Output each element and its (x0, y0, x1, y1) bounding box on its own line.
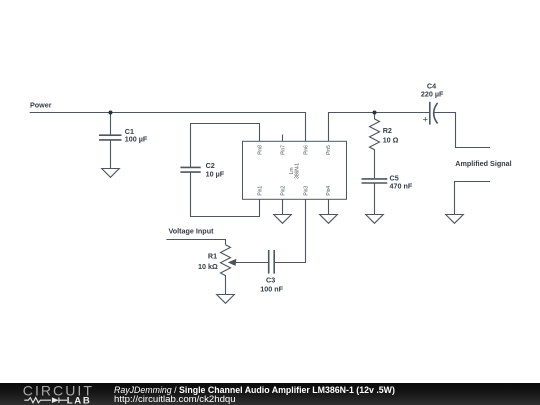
wire output lower stub to ground (455, 182, 491, 215)
svg-text:10 Ω: 10 Ω (383, 136, 399, 145)
R1 wiper wire to C3 (234, 262, 268, 264)
capacitor C4 polarized (430, 102, 438, 125)
wire C2 top to Pin8 (191, 124, 260, 168)
resistor R2 (370, 113, 380, 179)
wire C4 to output stub (434, 113, 490, 148)
ground below Pin4 (320, 215, 338, 224)
ground below Pin2 (274, 215, 292, 224)
svg-text:100 µF: 100 µF (125, 135, 148, 144)
svg-text:Pin5: Pin5 (326, 145, 332, 155)
svg-text:Pin6: Pin6 (303, 145, 309, 155)
wire Pin5 to output rail (329, 113, 431, 142)
ground below output (446, 215, 464, 224)
svg-text:470 nF: 470 nF (390, 182, 413, 191)
svg-text:Amplified Signal: Amplified Signal (455, 159, 511, 168)
wire C5 to ground (374, 183, 376, 215)
svg-text:10 µF: 10 µF (206, 169, 225, 178)
ground below C1 (102, 169, 120, 178)
wire Pin4 to ground (328, 199, 330, 214)
wire Voltage Input to R1 (166, 240, 225, 245)
wire C1 branch down from rail (110, 113, 112, 135)
wire C1 to ground (110, 141, 112, 169)
svg-text:R2: R2 (383, 126, 392, 135)
wire Pin2 to ground (282, 199, 284, 214)
CircuitLab logo (0, 383, 100, 405)
svg-text:LAB: LAB (67, 396, 92, 405)
resistor R1 potentiometer (221, 245, 231, 295)
svg-text:Pin4: Pin4 (326, 186, 332, 196)
capacitor C1 (99, 135, 122, 140)
pin 7 stub (282, 135, 284, 142)
capacitor C2 (180, 167, 200, 172)
R1 wiper arrow head (228, 259, 237, 266)
op-amp IC U1 LM386N-1 box (243, 141, 347, 199)
ground below R1 (217, 295, 235, 304)
svg-text:Pin8: Pin8 (257, 145, 263, 155)
footer bar (0, 383, 540, 405)
svg-text:C3: C3 (266, 276, 275, 285)
capacitor C3 (269, 250, 275, 274)
svg-text:Pin1: Pin1 (257, 186, 263, 196)
wire C2 bottom to Pin1 (191, 172, 260, 216)
ground below C5 (366, 215, 384, 224)
capacitor C5 (362, 179, 388, 183)
wire Pin3 down to C3 (274, 199, 305, 262)
junction node at R2 (373, 111, 377, 115)
svg-text:R1: R1 (208, 252, 217, 261)
svg-text:100 nF: 100 nF (260, 284, 283, 293)
svg-text:Voltage Input: Voltage Input (169, 227, 215, 236)
footer credit text (114, 386, 395, 405)
svg-text:Power: Power (30, 101, 52, 110)
wire power rail from Power label to Pin6 (30, 113, 306, 142)
svg-text:10 kΩ: 10 kΩ (198, 262, 218, 271)
svg-text:Pin7: Pin7 (280, 145, 286, 155)
svg-text:Pin2: Pin2 (280, 186, 286, 196)
svg-text:386N-1: 386N-1 (295, 163, 301, 179)
svg-text:Pin3: Pin3 (303, 186, 309, 196)
svg-text:220 µF: 220 µF (421, 90, 444, 99)
svg-text:+: + (423, 115, 429, 126)
junction node at C1 (109, 111, 113, 115)
